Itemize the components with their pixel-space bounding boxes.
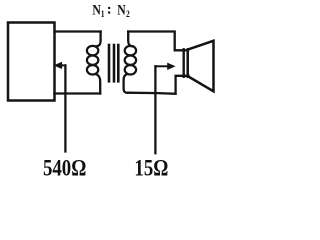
- pointer 15 ohm arrow head: [168, 63, 175, 69]
- label N1 : N2: [92, 1, 129, 19]
- svg-text:15Ω: 15Ω: [134, 155, 168, 181]
- inductor primary loop 1: [87, 46, 98, 55]
- transformer core line 3: [117, 45, 120, 81]
- transformer core line 2: [113, 45, 116, 81]
- pointer 540 ohm riser: [64, 65, 66, 151]
- wire bottom-left (box to transformer primary): [55, 92, 101, 94]
- svg-text:N: N: [117, 1, 126, 18]
- pointer 15 ohm riser: [154, 66, 156, 153]
- inductor primary loop 3: [87, 65, 98, 74]
- svg-text:1: 1: [101, 8, 105, 19]
- wire top-right (transformer secondary to speaker): [128, 32, 188, 51]
- wire bottom-right (transformer secondary to speaker): [128, 76, 189, 94]
- inductor secondary loop 3: [125, 65, 136, 74]
- wire secondary top feed: [128, 32, 133, 47]
- pointer 540 ohm arrow head: [55, 63, 62, 69]
- inductor secondary loop 2: [125, 56, 136, 65]
- wire primary bottom tail: [96, 74, 100, 93]
- speaker driver right edge: [186, 49, 188, 77]
- svg-text:540Ω: 540Ω: [43, 155, 86, 181]
- inductor primary loop 2: [87, 56, 98, 65]
- wire primary top feed: [96, 32, 101, 47]
- inductor secondary loop 1: [125, 46, 136, 55]
- transformer core line 1: [108, 45, 111, 81]
- speaker driver left edge: [182, 49, 184, 77]
- svg-text:2: 2: [126, 8, 130, 19]
- svg-text:N: N: [92, 1, 101, 18]
- pointer 15 ohm arrow shaft: [155, 65, 168, 67]
- wire secondary bottom tail: [124, 74, 128, 93]
- wire top-left (box to transformer primary): [55, 30, 101, 32]
- pointer 540 ohm arrow shaft: [61, 64, 66, 66]
- speaker horn cone: [188, 41, 214, 92]
- amplifier box: [8, 23, 55, 101]
